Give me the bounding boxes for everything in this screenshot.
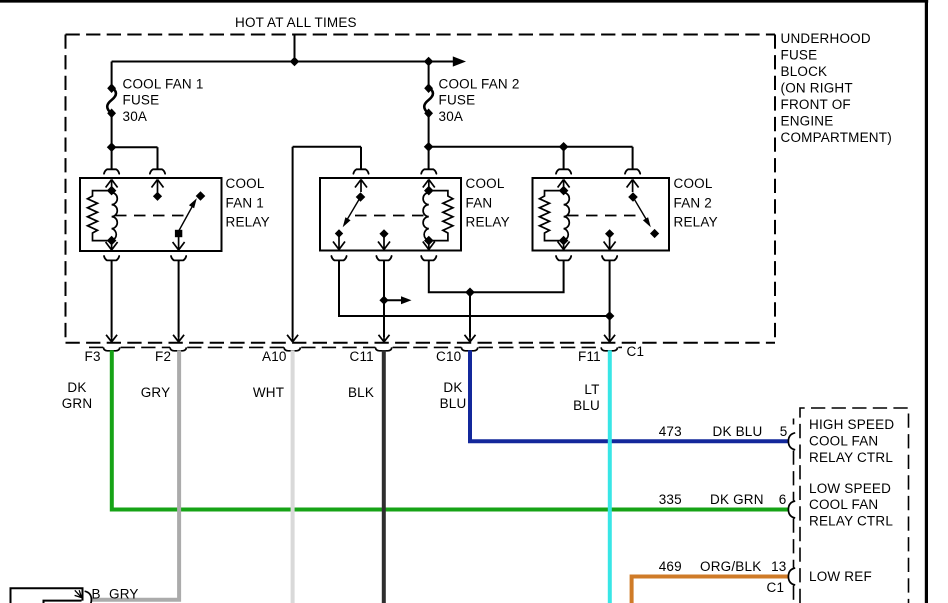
wire fuse1 to relay1 pins <box>112 146 158 148</box>
wire fuse2 to relay2 coil and relay3 <box>429 146 633 148</box>
svg-text:C1: C1 <box>627 344 645 359</box>
connector arrow A10 <box>287 335 298 342</box>
connector arrow F11 <box>604 335 615 342</box>
svg-text:LOW SPEED: LOW SPEED <box>809 481 891 496</box>
relay K1 switch arm <box>179 202 195 231</box>
connector arrow F3 <box>106 335 117 342</box>
resistor in relay K2 <box>429 191 453 241</box>
svg-text:FUSE: FUSE <box>439 93 476 108</box>
relay K3 switch arm <box>633 197 649 224</box>
label relay K2 <box>466 176 510 230</box>
wire BLK C11 <box>382 350 386 603</box>
PCM box dashed <box>800 408 909 603</box>
connector arrow C10 <box>465 335 476 342</box>
svg-text:WHT: WHT <box>253 385 284 400</box>
connector arc relay3 pin coil bottom <box>556 256 571 260</box>
connector arc relay2 pin coil bottom <box>421 256 436 260</box>
node C10 junction <box>465 288 475 298</box>
connector arc relay2 pin switch bottom <box>331 256 346 260</box>
relay K2 coil pin arrow up <box>423 180 435 192</box>
node fuse2 output junction <box>424 142 434 152</box>
cooling fan 1 motor box <box>11 588 83 603</box>
node relay K1 mid pin dot <box>153 192 162 201</box>
svg-text:F3: F3 <box>85 349 101 364</box>
connector bump PCM pin 13 <box>788 568 795 585</box>
svg-text:LOW REF: LOW REF <box>809 569 872 584</box>
relay K1 coil pin arrow up <box>106 180 118 192</box>
relay K2 mid pin arrow down <box>378 234 390 250</box>
wire GRY F2 <box>91 350 180 599</box>
svg-text:COOL: COOL <box>226 176 265 191</box>
connector arc relay1 pin mid top <box>150 169 165 173</box>
svg-text:COMPARTMENT): COMPARTMENT) <box>781 130 892 145</box>
connector arc relay2 pin mid bottom <box>376 256 391 260</box>
svg-text:F2: F2 <box>155 349 171 364</box>
connector arc relay2 pin coil top <box>421 169 436 173</box>
svg-text:ORG/BLK: ORG/BLK <box>700 559 761 574</box>
connector arc relay3 pin mid bottom <box>602 256 617 260</box>
svg-text:RELAY: RELAY <box>466 215 510 230</box>
connector bump C10 <box>461 347 477 350</box>
node relay K2 mid pin dot <box>379 229 388 238</box>
page border top <box>0 0 928 3</box>
node C11 junction <box>379 296 388 305</box>
node bus junction left <box>290 57 300 67</box>
svg-text:GRY: GRY <box>141 385 171 400</box>
wire relay2 mid to C11 <box>383 261 385 338</box>
wire hot feed stub <box>294 35 296 62</box>
svg-text:FAN 1: FAN 1 <box>226 195 265 210</box>
svg-text:473: 473 <box>659 424 682 439</box>
svg-text:FUSE: FUSE <box>781 48 818 63</box>
connector arrow fan motor <box>75 590 82 597</box>
connector bump F3 <box>103 347 119 350</box>
label relay K3 <box>674 176 718 230</box>
wire ORG/BLK <box>632 577 789 603</box>
relay K2 switch pin arrow up <box>355 180 367 193</box>
relay K3 box <box>533 178 670 251</box>
svg-text:RELAY CTRL: RELAY CTRL <box>809 513 893 528</box>
svg-text:HIGH SPEED: HIGH SPEED <box>809 417 894 432</box>
wire junction to C10 <box>469 292 471 337</box>
svg-text:FAN 2: FAN 2 <box>674 195 713 210</box>
svg-text:BLK: BLK <box>348 385 374 400</box>
connector bump F11 <box>601 347 617 350</box>
svg-text:335: 335 <box>659 492 682 507</box>
svg-text:C11: C11 <box>350 349 374 364</box>
svg-text:A10: A10 <box>262 349 287 364</box>
svg-text:COOL FAN 2: COOL FAN 2 <box>439 77 520 92</box>
wire A10 feed to relay2 switch <box>293 146 361 148</box>
node relay3 coil feed junction <box>559 142 569 152</box>
svg-text:UNDERHOOD: UNDERHOOD <box>781 31 871 46</box>
label relay K1 <box>226 176 270 230</box>
svg-text:6: 6 <box>779 492 787 507</box>
label fuse 1 <box>123 77 204 124</box>
svg-text:COOL FAN: COOL FAN <box>809 497 878 512</box>
connector arc relay3 pin switch top <box>625 169 640 173</box>
svg-text:FAN: FAN <box>466 195 493 210</box>
relay K3 coil pin arrow up <box>558 180 570 192</box>
relay K2 coil pin arrow down <box>423 241 435 250</box>
svg-text:GRY: GRY <box>109 587 139 602</box>
wire C11 offpage stub <box>384 299 403 301</box>
PCM connector dashed line <box>793 419 795 603</box>
coil in relay K1 <box>112 193 118 241</box>
connector arc relay1 pin switch bottom <box>171 256 186 260</box>
wire relay3 mid to F11 <box>609 261 611 338</box>
wire relay2 switch to F11 link <box>339 261 610 317</box>
svg-text:30A: 30A <box>123 109 148 124</box>
node F11 junction <box>605 311 615 321</box>
relay K2 dashed link <box>355 215 425 217</box>
connector bump PCM pin 5 <box>788 433 795 450</box>
fuse block connector C1 dashed line <box>89 346 622 348</box>
node relay K3 mid pin dot <box>605 229 614 238</box>
relay K1 coil bottom terminal <box>107 236 117 246</box>
svg-text:(ON RIGHT: (ON RIGHT <box>781 81 853 96</box>
relay K1 switch bottom terminal <box>175 230 182 237</box>
relay K2 switch arm <box>345 197 361 224</box>
node bus junction right <box>424 57 434 67</box>
relay K3 mid pin arrow down <box>604 234 616 250</box>
svg-text:F11: F11 <box>578 349 601 364</box>
connector arrow C11 <box>379 335 390 342</box>
connector bump PCM pin 6 <box>788 501 795 518</box>
wire relay1 coil to F3 <box>111 261 113 338</box>
svg-text:C10: C10 <box>436 349 461 364</box>
relay K3 dashed link <box>567 215 637 217</box>
relay K1 dashed link <box>115 215 190 217</box>
coil in relay K2 <box>423 193 429 241</box>
label pin B GRY <box>92 587 139 602</box>
underhood fuse block dashed box <box>66 34 776 36</box>
svg-text:BLU: BLU <box>573 398 600 413</box>
relay K2 coil bottom terminal <box>424 236 434 246</box>
relay K2 switch pin arrow down <box>333 234 345 250</box>
relay K1 switch pin arrow down <box>173 234 185 251</box>
svg-text:LT: LT <box>584 382 599 397</box>
svg-text:FUSE: FUSE <box>123 93 160 108</box>
relay K3 switch bottom terminal <box>650 229 659 238</box>
connector arrow F2 <box>173 335 184 342</box>
wire WHT A10 <box>291 350 295 603</box>
relay K2 switch top terminal <box>356 192 366 202</box>
resistor in relay K3 <box>540 191 564 241</box>
wire relay2 coil to relay3 coil link <box>429 261 564 293</box>
relay K1 mid pin arrow up <box>152 180 164 197</box>
relay K1 switch fixed contact <box>196 191 206 201</box>
label UNDERHOOD FUSE BLOCK <box>781 31 892 145</box>
relay K2 box <box>320 178 461 251</box>
page border right <box>925 0 928 603</box>
svg-text:RELAY CTRL: RELAY CTRL <box>809 450 893 465</box>
svg-text:469: 469 <box>659 559 682 574</box>
svg-text:C1: C1 <box>767 580 785 595</box>
connector bump fan motor pin B <box>85 591 92 603</box>
connector arc relay1 pin coil bottom <box>104 256 119 260</box>
relay K2 coil top terminal <box>424 186 434 196</box>
resistor in relay K1 <box>88 191 112 241</box>
wire power bus <box>112 61 457 63</box>
svg-text:FRONT OF: FRONT OF <box>781 97 851 112</box>
label fuse 2 <box>439 77 520 124</box>
wire relay1 switch to F2 <box>178 261 180 338</box>
svg-text:RELAY: RELAY <box>226 215 270 230</box>
svg-text:COOL: COOL <box>466 176 505 191</box>
connector arc relay3 pin coil top <box>556 169 571 173</box>
fuse F2 COOL FAN 2 FUSE 30A <box>424 62 433 148</box>
svg-text:5: 5 <box>780 424 788 439</box>
wire DK GRN F3 <box>112 350 790 509</box>
svg-text:DK GRN: DK GRN <box>710 492 764 507</box>
svg-text:DK: DK <box>67 380 86 395</box>
svg-text:B: B <box>92 587 101 602</box>
relay K3 switch pin arrow up <box>627 180 639 193</box>
connector bump A10 <box>284 347 300 350</box>
relay K3 coil top terminal <box>559 186 569 196</box>
node fuse1 output junction <box>107 142 117 152</box>
relay K3 coil pin arrow down <box>558 241 570 250</box>
fuse F1 COOL FAN 1 FUSE 30A <box>107 62 116 148</box>
svg-text:BLOCK: BLOCK <box>781 64 828 79</box>
relay K3 switch top terminal <box>628 192 638 202</box>
relay K1 coil pin arrow down <box>106 241 118 250</box>
svg-text:COOL: COOL <box>674 176 713 191</box>
connector arc relay1 pin coil top <box>104 169 119 173</box>
svg-text:30A: 30A <box>439 109 464 124</box>
wire LT BLU F11 <box>608 350 612 603</box>
svg-text:RELAY: RELAY <box>674 215 718 230</box>
relay K3 coil bottom terminal <box>559 236 569 246</box>
svg-text:DK BLU: DK BLU <box>713 424 763 439</box>
wire DK BLU C10 <box>470 350 789 441</box>
svg-text:13: 13 <box>771 559 786 574</box>
svg-text:BLU: BLU <box>440 396 467 411</box>
svg-text:COOL FAN 1: COOL FAN 1 <box>123 77 204 92</box>
svg-text:ENGINE: ENGINE <box>781 114 834 129</box>
svg-text:DK: DK <box>443 380 462 395</box>
relay K2 switch bottom terminal <box>335 229 343 237</box>
svg-text:HOT AT ALL TIMES: HOT AT ALL TIMES <box>235 15 357 30</box>
connector bump F2 <box>170 347 186 350</box>
connector bump C11 <box>375 347 391 350</box>
coil in relay K3 <box>564 193 570 241</box>
relay K1 coil top terminal <box>107 186 117 196</box>
svg-text:GRN: GRN <box>62 396 93 411</box>
svg-text:COOL FAN: COOL FAN <box>809 434 878 449</box>
relay K1 box <box>80 178 222 251</box>
connector arc relay2 pin switch top <box>353 169 368 173</box>
